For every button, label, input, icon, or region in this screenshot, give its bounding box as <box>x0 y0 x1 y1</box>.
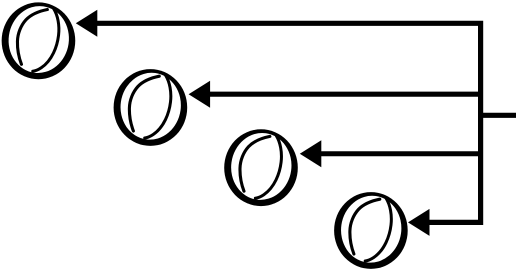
arrowhead 1 <box>76 10 98 37</box>
wire: right stub <box>481 113 516 118</box>
disk 2 <box>114 69 188 146</box>
disk 3 <box>224 129 298 206</box>
disk 1 <box>2 2 76 79</box>
wire: top branch, right vertical bus, bottom branch <box>92 23 481 222</box>
disk 4 <box>334 192 408 269</box>
arrowhead 3 <box>300 140 322 167</box>
wire: branch 3 <box>316 151 481 156</box>
arrowhead 2 <box>189 81 211 108</box>
wire: branch 2 <box>205 92 481 97</box>
arrowhead 4 <box>408 209 430 236</box>
